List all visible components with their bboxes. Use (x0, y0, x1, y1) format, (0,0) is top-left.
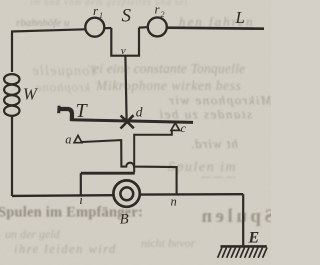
wire from c to crossover vertical (134, 130, 172, 172)
svg-text:n: n (171, 195, 177, 209)
svg-text:c: c (181, 121, 187, 135)
wire bottom rail right (140, 193, 244, 196)
svg-text:i: i (79, 192, 83, 207)
svg-text:S: S (122, 6, 132, 27)
svg-text:E: E (248, 230, 260, 247)
svg-text:im und vom dem gespieltes und: im und vom dem gespieltes und sei (30, 0, 188, 7)
wire key to r2 (139, 26, 148, 29)
wire bottom rail left (12, 194, 114, 197)
svg-text:Spulen: Spulen (198, 206, 271, 227)
svg-text:T: T (76, 100, 89, 122)
svg-text:un der geld: un der geld (5, 227, 61, 241)
wire left rail upper (11, 32, 13, 73)
wire r1 to key (105, 27, 112, 29)
battery B inner circle (120, 187, 133, 200)
earth E top line (221, 245, 267, 248)
winding r2 circle (148, 17, 167, 36)
svg-text:d: d (136, 105, 143, 120)
svg-text:Spulen im: Spulen im (168, 160, 237, 175)
circuit schematic (4, 17, 267, 257)
wire from a with crossover bump to node n (82, 140, 177, 195)
svg-text:2: 2 (161, 10, 165, 19)
contact triangle c (171, 123, 180, 130)
earth hatching (218, 248, 267, 258)
contact triangle a (74, 135, 82, 142)
svg-text:B: B (120, 212, 129, 228)
svg-text:a: a (65, 132, 71, 146)
svg-text:L: L (235, 8, 245, 27)
svg-text:krophone: krophone (35, 80, 90, 95)
receiver hook T (59, 109, 72, 121)
schematic labels (23, 2, 259, 247)
winding r1 circle (85, 18, 104, 37)
key S U-drop with contact v (111, 28, 139, 56)
wire down to node i (80, 173, 82, 195)
wire line L (167, 28, 264, 29)
svg-text:W: W (23, 85, 38, 104)
svg-text:ht wird.: ht wird. (190, 136, 238, 151)
svg-text:nicht bevor: nicht bevor (141, 236, 196, 250)
wire from v down to pivot d (125, 56, 126, 120)
lever arm (71, 120, 193, 123)
pivot cross at d (121, 115, 134, 128)
wire thick horizontal to i (81, 172, 135, 175)
svg-text:Mikrophone wir: Mikrophone wir (167, 93, 271, 108)
svg-text:Mikrophone wirken bess: Mikrophone wirken bess (95, 78, 241, 93)
svg-text:Tonquelle: Tonquelle (31, 64, 97, 79)
svg-text:ei eine constante Tonquelle: ei eine constante Tonquelle (93, 61, 245, 76)
svg-text:ihre leiden wird: ihre leiden wird (14, 242, 117, 256)
svg-text:1: 1 (99, 11, 103, 20)
wire left rail lower (11, 116, 13, 197)
wire down to earth (242, 194, 244, 246)
svg-text:v: v (121, 45, 126, 57)
wire top-left horizontal (11, 29, 86, 31)
svg-text:rbahnhöfe u: rbahnhöfe u (16, 17, 70, 29)
battery B outer circle (113, 180, 139, 206)
svg-text:standes zu bei: standes zu bei (158, 107, 252, 122)
inductor W coil loops (4, 74, 19, 84)
